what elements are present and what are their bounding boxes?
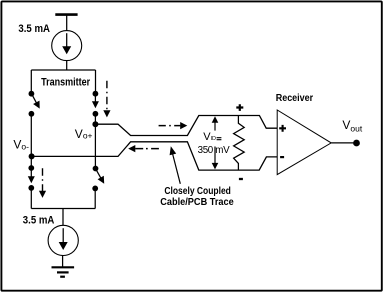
top differential trace Vo+ to receiver	[95, 116, 277, 136]
wire supply bar to current source I1	[66, 15, 68, 31]
supply rail bar (top)	[55, 13, 77, 16]
switch S2 arm (closed) shaft	[94, 94, 96, 102]
junction dot right lower switch top	[93, 166, 99, 172]
plus sign above resistor	[236, 104, 243, 111]
current arrow (dash-dot) left lower branch	[42, 168, 44, 191]
VID double-arrow head bottom	[212, 163, 219, 170]
ground bar 1	[52, 266, 75, 268]
switch S4 arrowhead	[98, 176, 105, 184]
dash-dot arrowhead along bottom trace	[128, 145, 135, 152]
switch S3 arrowhead	[28, 176, 35, 183]
junction dot left top	[29, 91, 35, 97]
junction dot right switch contact	[93, 111, 99, 117]
current source I1 arrow shaft	[66, 33, 68, 47]
node Vo+ junction dot	[92, 121, 98, 127]
current arrow (dash-dot) top right branch	[106, 81, 108, 111]
dash-dot arrowhead top right branch	[103, 110, 110, 117]
wire left branch upper	[30, 70, 32, 94]
wire right branch lower (Vo+ down to switch S4)	[94, 124, 96, 168]
termination resistor R1	[234, 116, 245, 171]
junction dot right top	[93, 91, 99, 97]
wire left branch to bottom rail	[30, 188, 32, 209]
current source I1 circle	[52, 31, 82, 61]
switch S4 arm (open)	[96, 169, 101, 179]
wire right branch mid	[94, 114, 96, 124]
ground bar 3	[60, 276, 65, 278]
output wire	[331, 142, 353, 144]
minus sign at receiver input	[280, 156, 284, 158]
output node dot	[353, 140, 360, 147]
svg-text:350 mV: 350 mV	[198, 145, 230, 156]
junction dot left lower switch contact	[28, 185, 34, 191]
I1 arrowhead	[62, 46, 71, 54]
junction dot left lower switch top	[28, 165, 34, 171]
svg-text:3.5 mA: 3.5 mA	[18, 23, 50, 35]
svg-text:Receiver: Receiver	[276, 92, 314, 104]
current arrow (dash-dot) along top trace	[159, 125, 181, 127]
transmitter top rail	[31, 69, 95, 71]
current arrow (dash-dot) along bottom trace	[135, 148, 159, 150]
ground bar 2	[57, 271, 69, 273]
label pointer arrowhead	[170, 146, 177, 155]
svg-text:Closely Coupled: Closely Coupled	[164, 185, 231, 196]
switch S1 arrowhead	[33, 101, 40, 109]
svg-text:Transmitter: Transmitter	[41, 77, 90, 89]
op-amp receiver U1 triangle	[277, 110, 331, 175]
wire left branch mid	[30, 114, 32, 157]
VID measurement double-arrow shaft	[214, 122, 216, 164]
plus sign at receiver input	[279, 125, 286, 132]
white mask behind VID label	[202, 131, 227, 147]
wire I2 to ground	[62, 256, 64, 268]
I2 arrowhead	[59, 242, 68, 250]
node Vo- junction dot	[29, 153, 35, 159]
wire I1 to transmitter top rail	[66, 61, 68, 70]
switch S3 arm (closed) shaft	[30, 168, 32, 177]
switch S2 arrowhead	[92, 101, 99, 108]
junction dot left switch contact	[29, 111, 35, 117]
current source I2 arrow shaft	[62, 228, 64, 243]
bottom rail	[31, 208, 95, 210]
wire left branch lower (Vo- to switch S3)	[30, 156, 32, 168]
equals sign of VID label	[217, 138, 222, 140]
VID double-arrow head top	[212, 116, 219, 123]
switch S1 arm (open)	[32, 94, 37, 103]
junction dot right lower switch contact	[92, 186, 98, 192]
wire right branch to bottom rail	[94, 188, 96, 208]
svg-text:3.5 mA: 3.5 mA	[23, 215, 55, 227]
dash-dot arrowhead along top trace	[180, 122, 187, 129]
label pointer arrow shaft	[173, 154, 181, 184]
wire right branch upper	[95, 70, 97, 94]
bottom differential trace Vo- to receiver	[32, 142, 278, 170]
svg-text:Cable/PCB Trace: Cable/PCB Trace	[160, 197, 234, 208]
minus sign below resistor	[239, 178, 243, 180]
dash-dot arrowhead left lower branch	[39, 191, 46, 198]
wire bottom rail to current source I2	[62, 209, 64, 226]
current source I2 circle	[48, 225, 78, 255]
